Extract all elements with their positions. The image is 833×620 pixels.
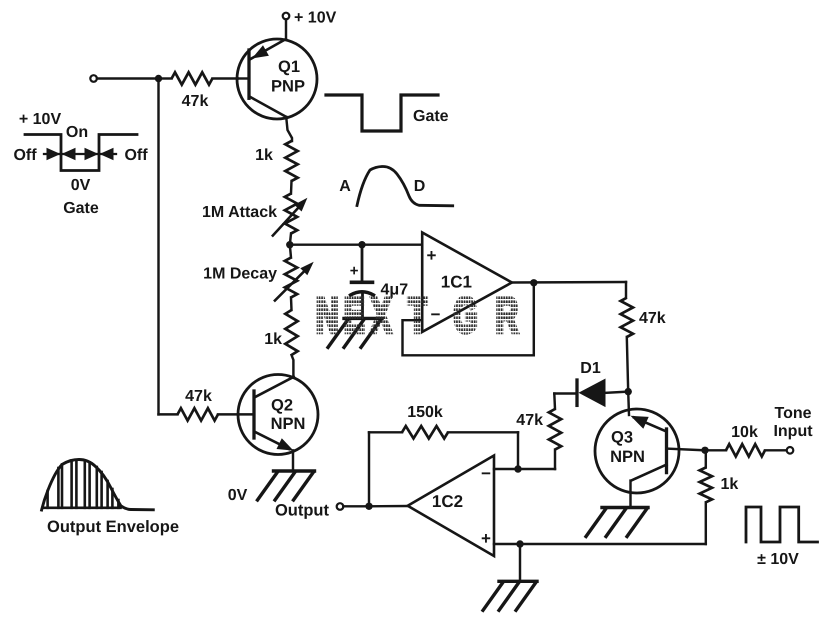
svg-text:47k: 47k — [516, 412, 543, 429]
resistor 47k (1C2 minus) — [516, 409, 561, 450]
resistor 1k (Q3 base) — [700, 450, 739, 544]
svg-text:NPN: NPN — [610, 448, 645, 466]
svg-text:47k: 47k — [182, 93, 209, 110]
svg-text:1M Attack: 1M Attack — [202, 204, 277, 221]
output envelope sketch — [42, 460, 179, 537]
input terminal — [90, 75, 97, 82]
wire output to node — [343, 505, 369, 507]
svg-text:X: X — [371, 288, 392, 343]
square wave +-10V — [746, 507, 818, 568]
wire feedback up — [368, 432, 370, 506]
svg-text:47k: 47k — [639, 310, 666, 327]
svg-text:Q2: Q2 — [271, 397, 293, 415]
label 0V — [228, 487, 248, 504]
svg-text:+: + — [427, 246, 437, 265]
node Q3 base/10k/1k — [701, 447, 708, 454]
svg-text:1k: 1k — [255, 147, 273, 164]
node input junction — [155, 75, 162, 82]
A/D envelope waveform — [339, 167, 452, 206]
rheostat 1M Attack — [202, 194, 307, 236]
wire left rail — [157, 79, 159, 415]
svg-text:1C2: 1C2 — [432, 492, 463, 511]
wire node to 1C1 + input — [290, 243, 422, 245]
svg-text:Input: Input — [773, 423, 813, 440]
wire Q1 collector to 1k — [286, 117, 292, 141]
wire 1C1 feedback loop — [403, 283, 534, 356]
transistor Q3 — [595, 392, 705, 507]
svg-text:+: + — [350, 263, 359, 280]
svg-text:10k: 10k — [731, 424, 758, 441]
svg-text:PNP: PNP — [271, 78, 305, 96]
diode D1 — [577, 360, 625, 407]
wire plus node to ground — [519, 544, 521, 581]
output terminal — [275, 502, 343, 520]
svg-text:± 10V: ± 10V — [757, 551, 799, 568]
ground (Q2) — [258, 471, 315, 500]
svg-text:N: N — [316, 288, 339, 343]
gate legend — [13, 111, 148, 217]
svg-text:Q3: Q3 — [611, 429, 633, 447]
node 1C2 plus — [516, 540, 523, 547]
resistor 47k (Q1 base) — [159, 72, 238, 110]
svg-text:G: G — [453, 288, 477, 343]
svg-text:On: On — [66, 124, 88, 141]
op-amp 1C1 — [422, 233, 512, 332]
svg-text:150k: 150k — [407, 404, 443, 421]
wire 1k to Q2 collector — [292, 355, 294, 377]
transistor Q1 — [237, 39, 317, 119]
rheostat 1M Decay — [203, 245, 314, 301]
svg-text:E: E — [344, 288, 365, 343]
svg-text:0V: 0V — [228, 487, 248, 504]
svg-text:Off: Off — [124, 147, 148, 164]
+10V supply terminal Q1 — [283, 10, 337, 40]
svg-text:Q1: Q1 — [278, 58, 300, 76]
resistor 1k (lower) — [264, 310, 297, 355]
svg-text:+ 10V: + 10V — [19, 111, 62, 128]
resistor 47k (1C1 output) — [621, 298, 666, 392]
svg-text:A: A — [339, 178, 351, 195]
watermark — [316, 288, 518, 343]
wire output node to 1C2 — [369, 505, 408, 508]
resistor 10k (tone input) — [705, 424, 787, 457]
svg-text:1M Decay: 1M Decay — [203, 266, 277, 283]
node 1C2 minus — [514, 465, 521, 472]
wire 47k to D1 — [554, 394, 577, 410]
svg-text:1k: 1k — [721, 476, 739, 493]
resistor 150k (1C2 feedback) — [369, 404, 518, 439]
svg-text:D1: D1 — [580, 360, 601, 377]
capacitor C1 4u7 — [350, 245, 408, 319]
svg-text:NPN: NPN — [271, 415, 306, 433]
node attack/decay — [286, 241, 293, 248]
node output feedback — [365, 503, 372, 510]
svg-text:R: R — [496, 288, 519, 343]
wire Q2 emitter to ground — [292, 450, 294, 471]
node D1/47k/Q3 — [625, 388, 632, 395]
wire 1k to attack — [290, 181, 293, 194]
svg-text:−: − — [481, 464, 491, 483]
transistor Q2 — [238, 375, 318, 455]
wire 1C1 output — [512, 281, 626, 284]
wire 150k down to minus node — [517, 432, 519, 469]
svg-text:1k: 1k — [264, 331, 282, 348]
svg-text:+: + — [481, 529, 491, 548]
node 1C1 output — [530, 279, 537, 286]
svg-text:T: T — [408, 288, 427, 343]
wire minus node to 47k — [518, 450, 555, 469]
wire 1C2 plus input — [494, 543, 706, 545]
svg-text:Output Envelope: Output Envelope — [47, 518, 179, 536]
wire input to node — [97, 77, 155, 79]
ground (1C2) — [483, 581, 537, 610]
resistor 47k (Q2 base) — [159, 388, 239, 421]
svg-text:+ 10V: + 10V — [294, 10, 337, 27]
op-amp 1C2 — [408, 456, 494, 557]
svg-text:Output: Output — [275, 502, 330, 520]
svg-text:−: − — [431, 305, 441, 324]
svg-text:Gate: Gate — [63, 200, 99, 217]
wire attack to node — [290, 234, 291, 246]
tone input terminal — [773, 405, 813, 454]
wire decay to 1k — [290, 297, 293, 310]
ground (4u7) — [328, 318, 382, 347]
wire minus input — [494, 468, 518, 470]
svg-text:Gate: Gate — [413, 108, 449, 125]
svg-text:Tone: Tone — [774, 405, 811, 422]
svg-text:47k: 47k — [185, 388, 212, 405]
resistor 1k (upper) — [255, 141, 298, 181]
ground (Q3) — [586, 508, 648, 537]
svg-text:0V: 0V — [71, 177, 91, 194]
gate pulse waveform — [326, 95, 449, 131]
svg-text:Off: Off — [13, 147, 37, 164]
node capacitor tap — [358, 241, 365, 248]
wire 1C1 out down — [625, 282, 627, 298]
svg-text:D: D — [414, 178, 426, 195]
